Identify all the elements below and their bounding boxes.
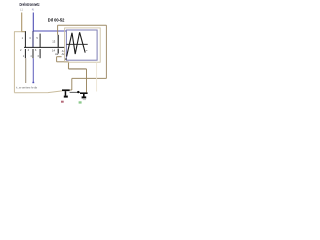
waveform axis (66, 43, 87, 45)
waveform u mark (65, 58, 67, 60)
contactor pole 3 (39, 34, 41, 48)
stop button stem (65, 91, 67, 96)
stop button bar (62, 89, 70, 91)
wire to stop button horizontal (72, 77, 107, 79)
svg-text:Dil 00-52: Dil 00-52 (48, 18, 65, 24)
terminal 4 wire end blob (32, 82, 34, 83)
wire stop button drop (71, 78, 73, 90)
contactor pole 2 (32, 31, 34, 48)
svg-text:t.meier/nb: t.meier/nb (16, 86, 38, 90)
wire coil jog bottom (57, 61, 69, 63)
start button shadow (83, 99, 86, 100)
contactor pole 1 (24, 31, 26, 48)
stop button foot (64, 96, 68, 98)
wire to start button horizontal (69, 68, 87, 70)
load box inner (66, 30, 97, 60)
start button green marker (79, 101, 82, 103)
start button foot (82, 96, 87, 98)
svg-text:N: N (32, 8, 34, 12)
svg-text:Drehstromnetz: Drehstromnetz (20, 2, 40, 7)
start button bar (80, 92, 88, 94)
wire terminal 4 down (32, 58, 34, 83)
wire coil jog left (56, 57, 58, 62)
wire bottom rail (14, 91, 62, 93)
wire coil jog top (57, 56, 62, 58)
wire control top (58, 24, 107, 26)
wire stop button jog (69, 89, 71, 91)
wire box bottom drop (68, 62, 70, 69)
faint wire right of box (96, 62, 98, 91)
svg-text:13: 13 (52, 39, 55, 43)
wire L1 stub (21, 13, 23, 33)
wire start button drop (86, 69, 88, 93)
svg-text:A2: A2 (55, 52, 59, 56)
load box outer (65, 28, 101, 62)
stop button red marker (61, 101, 64, 103)
wire left rail (13, 32, 15, 93)
wire terminal 2 down (25, 58, 27, 83)
wire control right drop (105, 25, 107, 78)
background (0, 0, 130, 112)
start button stem (83, 94, 85, 97)
wire L1 to pole 1 (22, 31, 26, 33)
aux contact 13-14 (57, 35, 59, 47)
junction dot (77, 91, 79, 93)
wire L1 to left rail (14, 31, 22, 33)
waveform zigzag (67, 32, 86, 56)
wire to aux contact (57, 25, 59, 35)
contact bridge line (24, 46, 65, 48)
wire N stub (32, 13, 34, 32)
wire N to box (33, 30, 66, 32)
wire link between buttons (70, 91, 80, 93)
